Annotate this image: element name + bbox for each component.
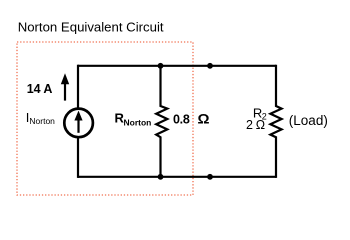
svg-text:Norton Equivalent Circuit: Norton Equivalent Circuit: [18, 19, 164, 34]
svg-text:Norton: Norton: [124, 117, 152, 127]
svg-text:(Load): (Load): [289, 113, 328, 128]
svg-text:2 Ω: 2 Ω: [246, 118, 265, 132]
svg-text:Norton: Norton: [29, 116, 55, 126]
svg-text:0.8: 0.8: [173, 112, 190, 126]
svg-text:14 A: 14 A: [27, 82, 53, 96]
svg-text:Ω: Ω: [198, 110, 210, 126]
